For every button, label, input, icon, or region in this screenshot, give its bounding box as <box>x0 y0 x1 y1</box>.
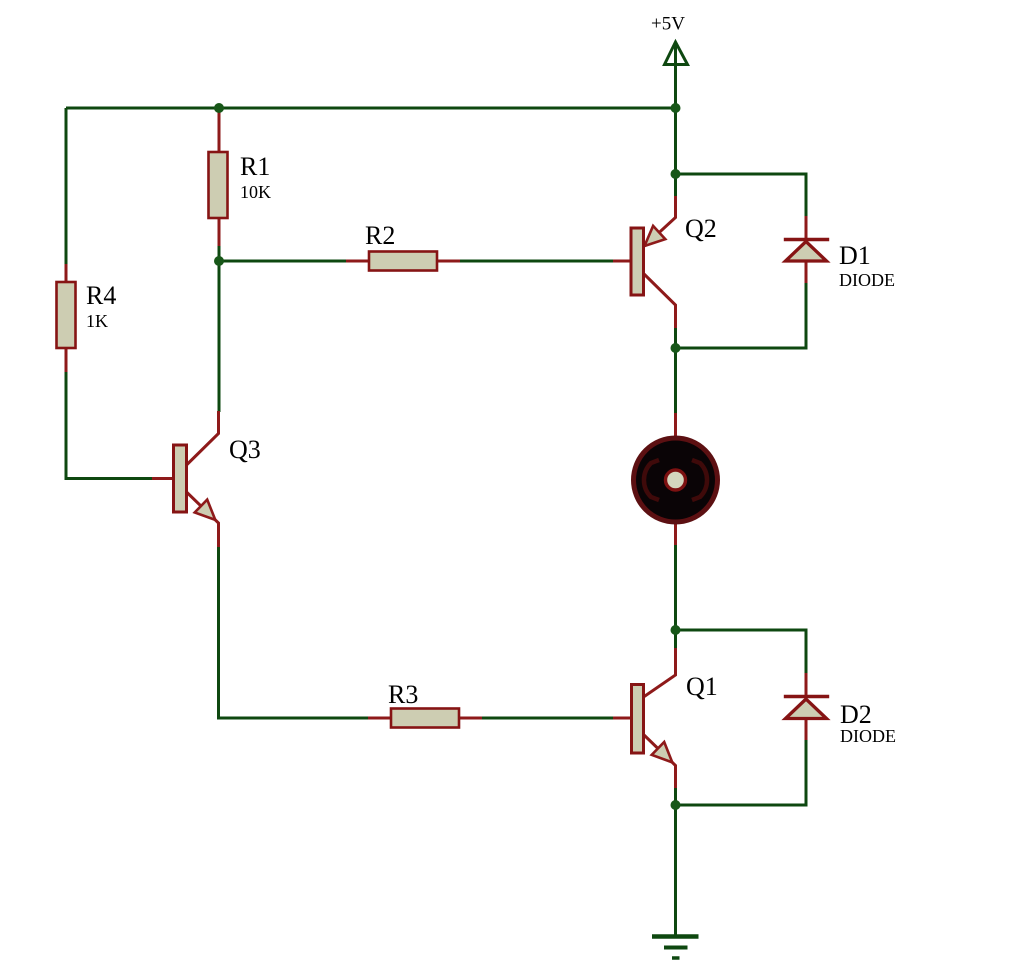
wire node R1 bottom to R2 <box>219 260 347 263</box>
wire R4 to Q3 base corner <box>66 371 152 479</box>
wire rail to Q2 node <box>674 108 677 196</box>
transistor Q1 <box>613 648 718 788</box>
node junction Q1 emitter / D2 / ground <box>671 800 681 810</box>
node junction top-left <box>214 103 224 113</box>
node junction Q2 emitter / D1 <box>671 169 681 179</box>
wire +5V stem <box>674 44 677 108</box>
wire Q2 collector to motor <box>674 327 677 413</box>
diode D2 <box>784 673 896 746</box>
node junction Q2 collector / D1 <box>671 343 681 353</box>
ground <box>652 937 699 959</box>
svg-text:Q1: Q1 <box>686 672 718 701</box>
transistor Q3 <box>152 411 261 547</box>
svg-text:DIODE: DIODE <box>840 726 896 746</box>
svg-text:R1: R1 <box>240 152 270 181</box>
wire Q1 collector stub <box>674 630 677 649</box>
wire D2 top branch <box>676 630 807 673</box>
motor M1 <box>634 413 718 545</box>
svg-text:Q3: Q3 <box>229 435 261 464</box>
svg-text:10K: 10K <box>240 182 271 202</box>
resistor R3 <box>368 680 482 728</box>
wire top rail <box>66 107 676 110</box>
wire to ground <box>674 805 677 936</box>
resistor R2 <box>346 221 460 271</box>
wire Q1 emitter stub <box>674 788 677 806</box>
resistor R4 <box>57 264 117 372</box>
svg-text:D2: D2 <box>840 700 872 729</box>
svg-text:R2: R2 <box>365 221 395 250</box>
svg-text:1K: 1K <box>86 311 108 331</box>
power symbol +5V <box>651 14 687 65</box>
transistor Q2 <box>613 196 717 328</box>
svg-text:R4: R4 <box>86 281 116 310</box>
wire D2 bottom branch <box>676 740 807 805</box>
wire Q3 emitter to R3 <box>219 546 370 718</box>
svg-text:R3: R3 <box>388 680 418 709</box>
diode D1 <box>784 216 895 290</box>
wire motor to Q1 node <box>674 544 677 630</box>
svg-text:+5V: +5V <box>651 14 685 35</box>
wire left vertical <box>65 108 68 265</box>
wire D1 bottom branch <box>676 283 807 349</box>
wire R1 bottom short <box>218 245 221 261</box>
node junction +5V rail <box>671 103 681 113</box>
svg-text:DIODE: DIODE <box>839 270 895 290</box>
wire R3 to Q1 base <box>481 717 613 720</box>
node junction Q1 collector / D2 <box>671 625 681 635</box>
wire R2 to Q2 base <box>459 260 613 263</box>
wire node to Q3 collector <box>218 261 221 412</box>
node junction R1 bottom <box>214 256 224 266</box>
resistor R1 <box>209 108 272 246</box>
svg-text:D1: D1 <box>839 241 871 270</box>
svg-text:Q2: Q2 <box>685 214 717 243</box>
wire D1 top branch <box>676 174 807 216</box>
